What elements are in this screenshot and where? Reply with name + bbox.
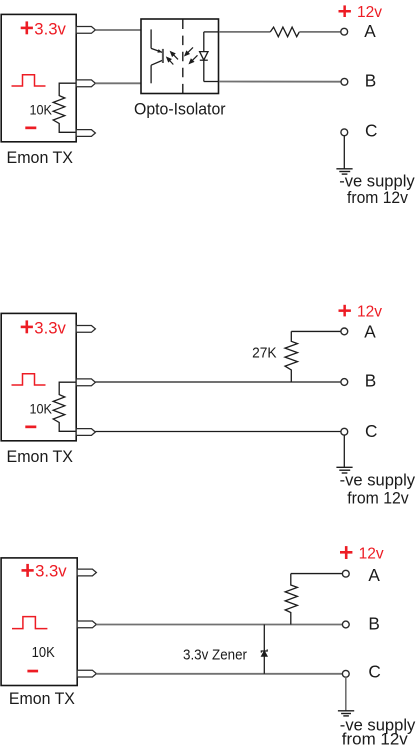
terminal C (top) [341,129,348,136]
terminal C (middle) [341,428,348,435]
pin tab 3 (bottom box) [77,670,96,677]
+3.3v label (middle box) [21,318,67,337]
opto-isolator U1 box [141,19,219,94]
transistor base bar [162,49,164,63]
resistor R3 10K (middle box) [53,382,75,431]
wire LED bottom inside opto [204,81,219,83]
+12v label (top) [339,4,383,21]
wire LED top inside opto [204,31,219,33]
pulse symbol (bottom box) [12,617,47,629]
svg-text:12v: 12v [359,546,384,563]
svg-text:C: C [365,421,377,441]
svg-text:B: B [365,71,376,91]
terminal C (bottom) [342,670,349,677]
svg-text:from 12v: from 12v [342,730,409,749]
terminal A (middle) [341,328,348,335]
wire C to ground (middle) [343,435,345,467]
wire tab2 to opto [95,82,151,84]
phototransistor (opto left) [151,29,162,83]
svg-text:B: B [368,614,379,634]
wire resistor to A terminal (bottom) [291,573,343,575]
ground (top) [336,169,352,174]
svg-text:12v: 12v [357,304,382,321]
dashed divider (opto) [182,20,184,94]
minus mark (middle box) [25,426,36,429]
Emon TX box (bottom) [1,558,77,686]
wire C to ground (top) [343,136,345,169]
svg-text:A: A [368,565,380,585]
pin tab 2 (top box) [76,80,95,87]
svg-text:A: A [364,322,376,342]
terminal A (top) [341,28,348,35]
svg-text:3.3v Zener: 3.3v Zener [183,648,247,664]
svg-text:Emon TX: Emon TX [7,447,74,466]
terminal B (middle) [341,379,348,386]
wire opto to resistor [219,31,270,33]
svg-text:10K: 10K [30,102,53,117]
pulse symbol (top box) [12,75,46,86]
light arrow right 1 [185,47,193,55]
light arrow right 2 [190,55,198,63]
minus mark (bottom box) [27,670,38,673]
pin tab 1 (middle box) [76,326,95,333]
terminal B (top) [341,78,348,85]
wire 27K to A terminal (middle) [291,330,341,332]
pin tab 2 (middle box) [76,379,95,386]
minus mark (top box) [25,127,36,130]
svg-text:3.3v: 3.3v [34,318,66,337]
svg-text:3.3v: 3.3v [35,561,67,580]
svg-text:-ve supply: -ve supply [340,471,416,490]
LED (opto right) [200,32,208,82]
wire tab1 to opto [95,29,151,31]
svg-text:from 12v: from 12v [347,188,409,207]
+3.3v label (top box) [21,19,67,38]
zener diode branch [263,625,265,674]
resistor R1 10K (top box) [53,83,75,132]
svg-text:B: B [365,370,376,390]
resistor R4 27K [285,331,298,382]
pulse symbol (middle box) [12,374,46,385]
svg-text:27K: 27K [252,345,277,362]
svg-text:12v: 12v [357,4,382,21]
wire tab2 to B terminal (middle) [95,381,341,383]
svg-text:10K: 10K [32,645,55,661]
wire C to ground (bottom) [345,677,347,710]
wire tab2 to B terminal (bottom) [96,624,342,626]
+12v label (bottom) [340,546,384,563]
ground (middle) [336,467,352,473]
svg-text:A: A [364,21,376,41]
pin tab 1 (bottom box) [77,569,96,576]
wire resistor to A [299,31,341,33]
Emon TX box (top) [1,14,76,141]
zener diode D2 symbol [261,649,267,656]
wire tab3 to C terminal (bottom) [96,673,342,675]
svg-text:Emon TX: Emon TX [9,689,75,708]
svg-text:C: C [365,121,377,141]
resistor R5 [285,574,297,625]
svg-text:C: C [368,661,380,681]
svg-text:from 12v: from 12v [347,488,409,507]
terminal A (bottom) [342,570,349,577]
light arrow left 1 [171,52,178,60]
terminal B (bottom) [342,621,349,628]
svg-text:Emon TX: Emon TX [7,148,74,167]
pin tab 3 (top box) [76,130,95,137]
svg-text:Opto-Isolator: Opto-Isolator [134,100,226,119]
+3.3v label (bottom box) [22,561,68,580]
wire opto to B [219,81,341,83]
collector arrowhead [157,49,162,53]
resistor R2 (series to A) [270,27,299,37]
svg-text:3.3v: 3.3v [34,19,66,38]
pin tab 2 (bottom box) [77,621,96,628]
svg-text:10K: 10K [30,401,53,416]
Emon TX box (middle) [1,313,76,440]
ground (bottom) [338,711,354,716]
+12v label (middle) [339,304,383,321]
pin tab 3 (middle box) [76,429,95,436]
pin tab 1 (top box) [76,27,95,34]
wire tab3 to C terminal (middle) [95,431,341,433]
light arrow left 2 [167,58,173,65]
